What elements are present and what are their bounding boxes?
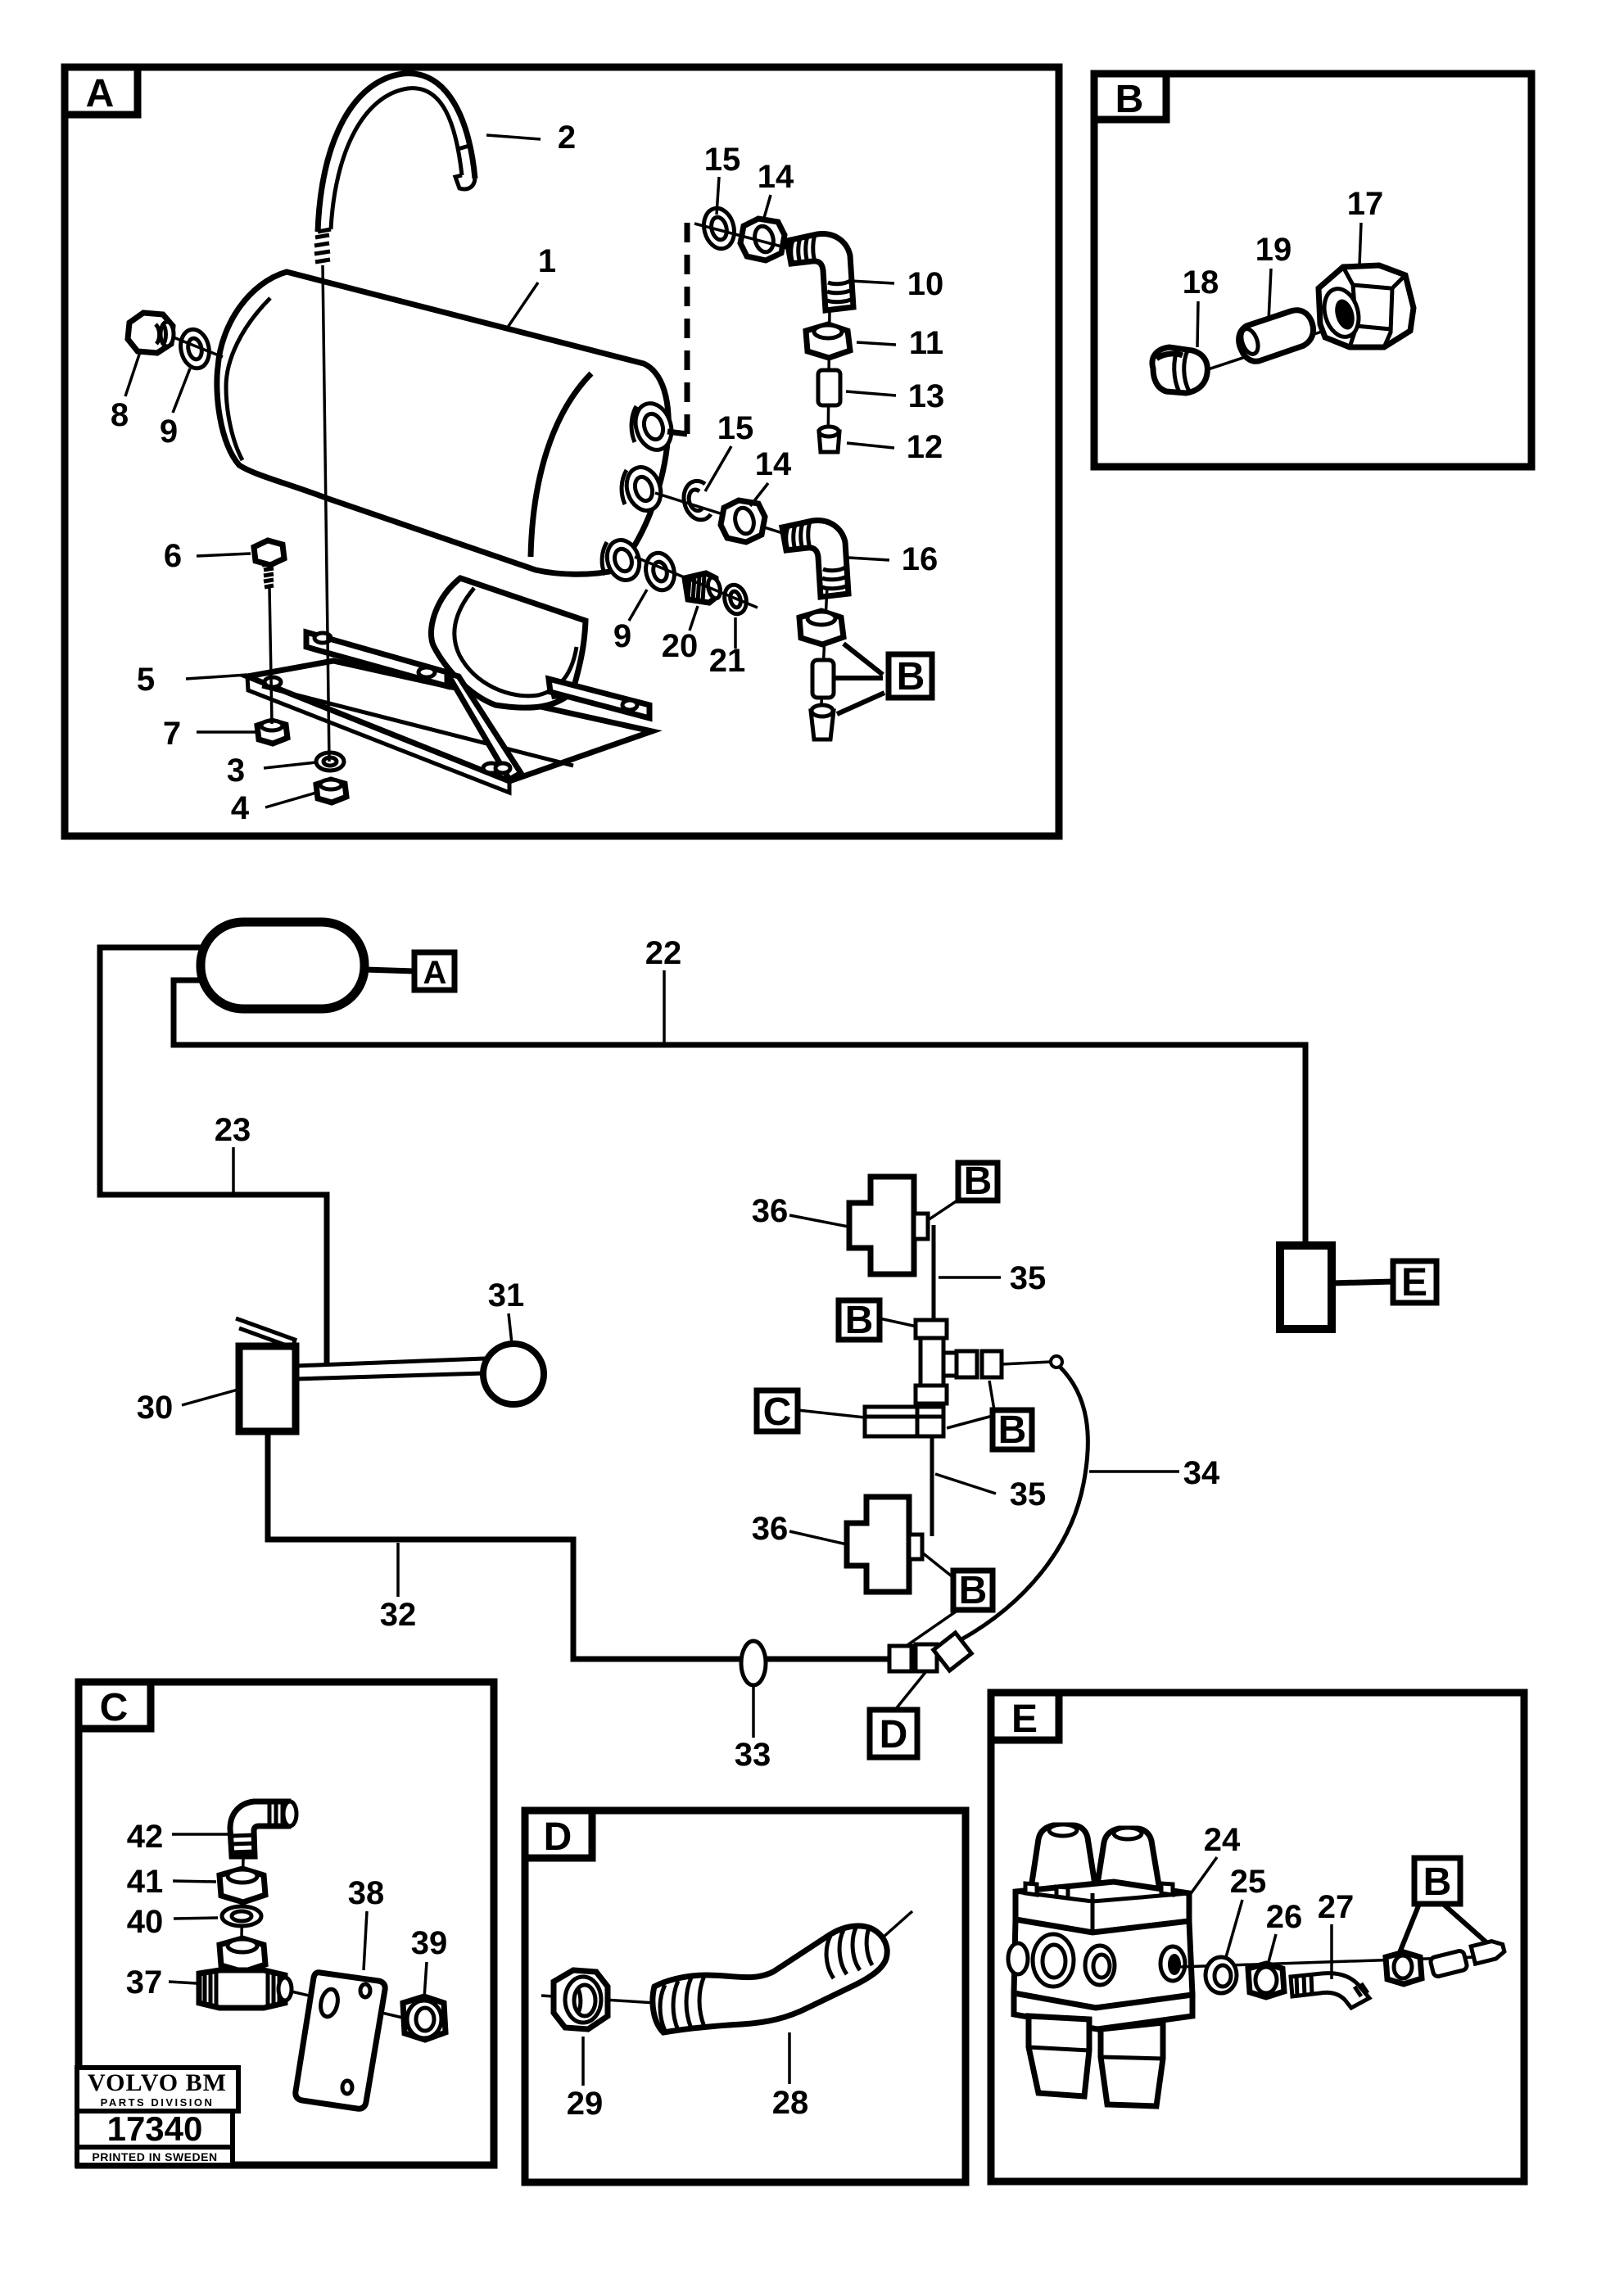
svg-text:B: B (959, 1569, 988, 1612)
valve 24 body (1008, 1824, 1192, 2106)
svg-text:18: 18 (1183, 264, 1219, 301)
bolt 6 (254, 540, 284, 565)
svg-text:5: 5 (137, 662, 155, 698)
svg-text:16: 16 (902, 541, 939, 577)
svg-text:10: 10 (907, 266, 944, 302)
nut 8 (128, 313, 173, 353)
svg-text:B: B (845, 1299, 874, 1342)
ferrule 18 (1152, 347, 1207, 393)
svg-text:8: 8 (111, 397, 129, 433)
svg-text:27: 27 (1318, 1889, 1355, 1925)
valve 30 body (239, 1346, 296, 1431)
plug 20 (685, 573, 717, 603)
nut on tee (219, 1938, 265, 1972)
pipe 35 upper (932, 1225, 936, 1323)
washer 40 (222, 1906, 261, 1926)
nut b11 (799, 611, 844, 644)
svg-text:22: 22 (645, 935, 682, 971)
svg-text:23: 23 (215, 1112, 251, 1148)
svg-text:C: C (100, 1686, 129, 1729)
axis top group (694, 224, 788, 248)
node B box (right of C) (993, 1410, 1032, 1449)
washer 15 (top) (699, 205, 738, 251)
svg-text:14: 14 (755, 446, 792, 482)
washer 9 (left) (177, 327, 212, 371)
node B box (upper) (958, 1163, 997, 1200)
tank right dome seam (531, 373, 591, 557)
top flange (1016, 1882, 1189, 1933)
nipple b12 (811, 711, 834, 739)
svg-text:E: E (1011, 1698, 1038, 1741)
elbow 42 (230, 1802, 288, 1856)
bracket lines to B (834, 644, 884, 714)
node D box (870, 1710, 917, 1757)
box C frame (79, 1682, 494, 2165)
lower flange (1014, 1993, 1192, 2029)
nut 7 (257, 721, 287, 744)
bottom cylinders (1029, 2016, 1089, 2096)
fittings right of 27 (1386, 1952, 1422, 1984)
component rect (ref E) (1280, 1246, 1332, 1329)
svg-text:C: C (763, 1390, 792, 1434)
nut 14 (top) (740, 219, 785, 260)
svg-text:B: B (998, 1408, 1027, 1452)
node E box (1393, 1261, 1436, 1303)
right foot (549, 679, 649, 718)
svg-text:25: 25 (1230, 1864, 1267, 1900)
svg-text:15: 15 (717, 410, 754, 446)
svg-text:1: 1 (538, 243, 556, 279)
svg-text:2: 2 (558, 120, 576, 156)
svg-text:19: 19 (1255, 232, 1292, 268)
axis in D (541, 1996, 655, 2003)
node C box (757, 1390, 798, 1431)
tee 37 (199, 1970, 285, 2008)
node B box (lower) (953, 1571, 993, 1610)
tee fitting (916, 1320, 947, 1338)
port ring middle (622, 463, 667, 515)
svg-text:B: B (1115, 78, 1144, 121)
svg-text:31: 31 (488, 1277, 525, 1313)
axis 37 to 39 (292, 1991, 406, 2019)
elbow 28 tip line (883, 1911, 912, 1937)
elbow 28 (653, 1926, 887, 2032)
box A label (65, 67, 138, 115)
knob 31 (483, 1344, 544, 1404)
saddle cradle (431, 578, 586, 708)
axis bottom group (635, 557, 758, 608)
svg-text:39: 39 (411, 1925, 448, 1961)
svg-text:30: 30 (137, 1390, 174, 1426)
svg-text:40: 40 (127, 1904, 164, 1940)
line to hose end (1002, 1362, 1052, 1364)
box B frame (1094, 74, 1531, 467)
svg-text:38: 38 (348, 1875, 385, 1911)
box D label (525, 1811, 592, 1858)
axis line B (1161, 318, 1364, 385)
box E label (991, 1693, 1059, 1740)
nut 17 (1319, 265, 1414, 347)
svg-text:3: 3 (227, 753, 245, 789)
svg-text:21: 21 (709, 643, 746, 679)
VOLVO BM stamp (77, 2068, 238, 2165)
nut 14 (mid) (721, 500, 765, 542)
elbow 16 (782, 521, 848, 597)
nut 26 (1248, 1964, 1284, 1997)
svg-text:33: 33 (735, 1737, 771, 1773)
svg-text:17: 17 (1347, 186, 1384, 222)
sleeve b13 (812, 660, 834, 698)
svg-text:32: 32 (380, 1597, 417, 1633)
axis 42-41-40 (242, 1858, 243, 1937)
box E frame (991, 1693, 1524, 2181)
box D frame (525, 1811, 966, 2182)
node A box (414, 952, 455, 990)
svg-text:34: 34 (1183, 1455, 1220, 1491)
node B box (in A) (889, 654, 932, 698)
svg-text:29: 29 (567, 2086, 604, 2122)
svg-text:D: D (544, 1815, 572, 1859)
wire 22 (tank to E-rect) (174, 980, 1305, 1246)
svg-text:A: A (423, 955, 447, 991)
port ring bottom (602, 536, 645, 584)
svg-text:35: 35 (1010, 1476, 1047, 1512)
axis below elbow 10 (828, 310, 830, 446)
elbow 27 (1291, 1973, 1369, 2008)
rail (upper mount) (306, 632, 447, 686)
tank symbol (ref to A) (201, 922, 364, 1009)
svg-text:13: 13 (908, 378, 945, 414)
svg-text:35: 35 (1010, 1260, 1047, 1296)
svg-text:20: 20 (662, 628, 699, 664)
saddle shadow (547, 676, 568, 699)
wire 32 (valve down, right, down, right to fittings) (268, 1431, 889, 1659)
nut 29 (554, 1970, 608, 2029)
svg-text:14: 14 (758, 159, 794, 195)
snap washer 15 (mid) (684, 481, 711, 519)
rod 31 (296, 1359, 485, 1379)
nut 41 (219, 1869, 265, 1902)
svg-text:36: 36 (752, 1511, 789, 1547)
svg-text:28: 28 (772, 2085, 809, 2121)
dashed line (685, 223, 690, 434)
sleeve 19 (1239, 310, 1314, 361)
node B box (in E) (1414, 1858, 1460, 1904)
svg-text:9: 9 (613, 618, 631, 654)
svg-text:17340: 17340 (107, 2109, 203, 2148)
strap bolt axis (323, 265, 329, 762)
svg-text:11: 11 (909, 325, 943, 361)
main body (1014, 1919, 1192, 2008)
svg-text:24: 24 (1204, 1822, 1241, 1858)
svg-text:15: 15 (704, 142, 741, 178)
washer 25 (1206, 1957, 1237, 1993)
nut 11 (806, 324, 850, 358)
nut 4 (316, 780, 346, 802)
wire 23 (tank left, down, right, down to valve) (100, 947, 327, 1366)
nipple 12 (819, 432, 839, 452)
svg-text:E: E (1401, 1261, 1427, 1304)
axis E (1179, 1957, 1474, 1967)
svg-text:PARTS DIVISION: PARTS DIVISION (101, 2096, 215, 2109)
hose 34 (961, 1367, 1088, 1639)
tank 1 (217, 272, 668, 574)
svg-text:VOLVO BM: VOLVO BM (88, 2069, 227, 2096)
svg-text:42: 42 (127, 1819, 164, 1855)
svg-text:6: 6 (164, 538, 182, 574)
svg-text:B: B (897, 655, 925, 698)
bolt 6 axis (269, 588, 272, 724)
box C label (79, 1682, 151, 1729)
svg-text:26: 26 (1266, 1899, 1303, 1935)
svg-text:B: B (1423, 1860, 1452, 1904)
strap bolt coil (314, 235, 330, 262)
strap 2 (318, 74, 475, 232)
left foot (447, 673, 521, 780)
box B label (1094, 74, 1166, 120)
axis 8-9 to tank (174, 337, 223, 357)
grommet 33 (741, 1641, 766, 1685)
washer 9 (bottom) (642, 550, 678, 594)
svg-text:4: 4 (231, 790, 250, 826)
wire tank to A box (364, 970, 414, 971)
pipe 35 lower (930, 1436, 934, 1536)
svg-text:9: 9 (160, 414, 178, 450)
tank left dome seam (226, 298, 270, 460)
svg-text:A: A (86, 72, 115, 115)
wire rect to E box (1332, 1282, 1393, 1283)
svg-text:B: B (964, 1160, 993, 1203)
washer 3 (316, 753, 344, 771)
valve 30 lever (239, 1328, 293, 1348)
svg-text:PRINTED IN SWEDEN: PRINTED IN SWEDEN (92, 2150, 217, 2163)
bracket 38 (296, 1973, 385, 2109)
body ports (1008, 1943, 1028, 1974)
axis below elbow 16 (821, 586, 827, 721)
svg-text:7: 7 (163, 716, 181, 752)
cone caps (1030, 1825, 1096, 1893)
oring 21 (722, 582, 749, 616)
svg-text:41: 41 (127, 1864, 164, 1900)
base plate 5 (247, 661, 652, 781)
box A frame (65, 67, 1059, 836)
nut 39 (403, 1996, 446, 2040)
junction block 36 lower (847, 1497, 909, 1592)
valve block (ref C) (865, 1407, 943, 1436)
svg-text:36: 36 (752, 1193, 789, 1229)
svg-text:D: D (880, 1713, 908, 1756)
node B box (mid-left) (839, 1300, 880, 1340)
svg-text:37: 37 (126, 1964, 163, 2000)
junction block 36 upper (849, 1177, 914, 1274)
sleeve 13 (818, 370, 840, 405)
axis mid group (655, 493, 819, 545)
end fittings on wire 32 (889, 1646, 912, 1671)
elbow 10 (787, 234, 853, 310)
svg-text:12: 12 (907, 429, 943, 465)
port ring top (630, 399, 677, 454)
